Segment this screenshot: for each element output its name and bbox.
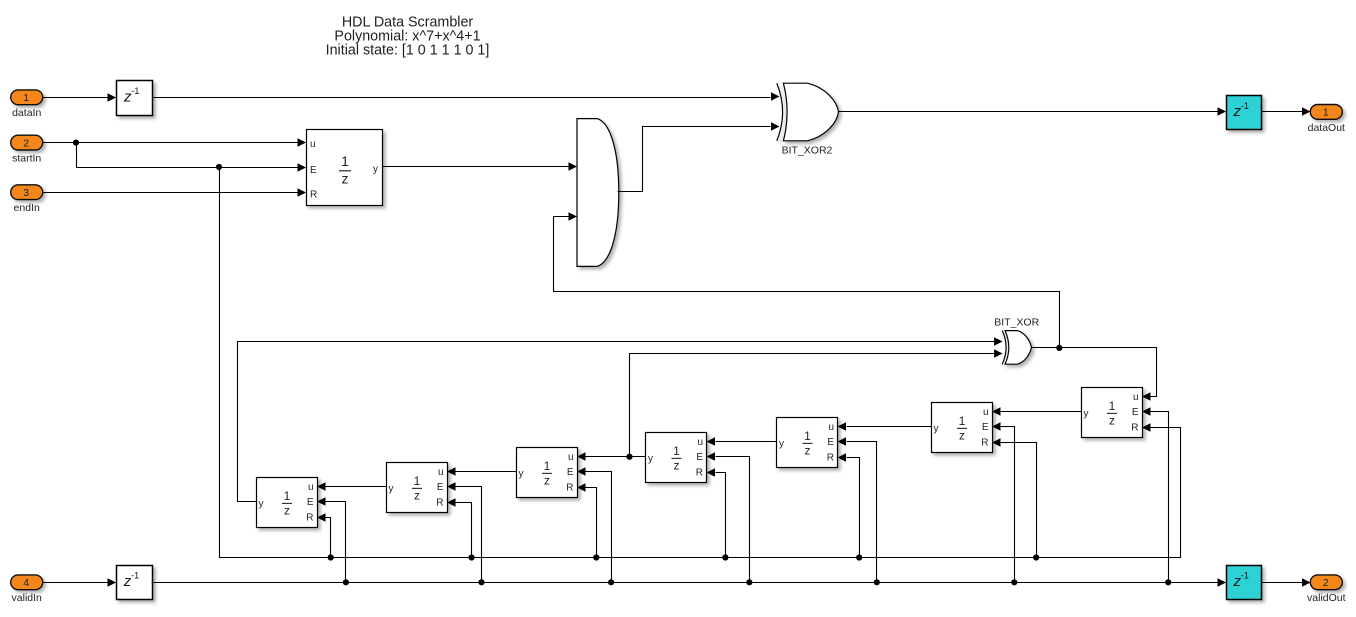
output port 2 validOut <box>1307 575 1346 604</box>
wire enable net to d3 E <box>838 437 877 582</box>
junction reset net <box>856 554 862 560</box>
wire d6 y to d7 u <box>317 482 387 491</box>
svg-text:E: E <box>310 165 317 176</box>
svg-text:R: R <box>1131 422 1138 433</box>
wire reset net to d3 R <box>838 453 860 557</box>
svg-text:y: y <box>779 438 784 449</box>
svg-text:E: E <box>1132 407 1139 418</box>
svg-text:R: R <box>306 512 313 523</box>
svg-text:endIn: endIn <box>14 202 40 214</box>
junction enable net <box>1011 579 1017 585</box>
wire startIn branch to U1 E <box>77 143 307 172</box>
svg-text:E: E <box>982 422 989 433</box>
svg-text:u: u <box>1133 392 1139 403</box>
svg-text:-1: -1 <box>131 571 139 581</box>
wire d3 y to d4 u <box>707 437 777 446</box>
delay block d1 (1/z flipped, u E R y) <box>1082 388 1143 438</box>
delay block d7 (1/z flipped, u E R y) <box>257 478 318 528</box>
svg-text:1: 1 <box>673 444 680 458</box>
enabled resettable delay block U1 (1/z, u E R y) <box>307 130 383 206</box>
svg-text:2: 2 <box>1323 577 1329 589</box>
delay block Delay3 (z^-1, validIn path) <box>117 566 153 600</box>
svg-text:y: y <box>1084 408 1089 419</box>
svg-text:1: 1 <box>341 153 349 169</box>
wire Delay2 to dataOut <box>1262 107 1311 116</box>
svg-text:E: E <box>437 482 444 493</box>
wire Delay1 to BIT_XOR2 input 1 <box>153 92 780 101</box>
wire feedback to AND input 2 <box>554 212 1060 347</box>
svg-text:u: u <box>983 407 989 418</box>
svg-text:u: u <box>568 452 574 463</box>
wire d7 y to BIT_XOR input 1 <box>238 337 1003 501</box>
wire Delay4 to validOut <box>1262 578 1311 587</box>
svg-text:z: z <box>342 171 349 187</box>
wire reset net to d2 R <box>992 438 1037 557</box>
input port 3 endIn <box>11 185 43 214</box>
wire enable net to d6 E <box>447 482 482 582</box>
junction scrambler feedback <box>1056 345 1062 351</box>
wire enable net to d4 E <box>707 452 750 582</box>
wire U1 y to AND input 1 <box>383 162 578 171</box>
wire enable net to d2 E <box>992 422 1015 582</box>
svg-text:R: R <box>310 190 317 201</box>
wire d2 y to d3 u <box>838 422 932 431</box>
svg-text:BIT_XOR: BIT_XOR <box>994 316 1039 328</box>
svg-text:z: z <box>544 473 550 487</box>
label BIT_XOR2 <box>782 144 833 156</box>
wire endIn to U1 R <box>43 188 307 197</box>
svg-text:z: z <box>805 443 811 457</box>
svg-text:1: 1 <box>959 414 966 428</box>
wire x^4 tap to BIT_XOR input 2 <box>630 349 1003 456</box>
svg-text:z: z <box>959 428 965 442</box>
svg-text:1: 1 <box>544 459 551 473</box>
wire BIT_XOR2 output to Delay2 <box>839 107 1227 116</box>
delay block d2 (1/z flipped, u E R y) <box>932 403 993 453</box>
svg-text:y: y <box>648 453 653 464</box>
wire reset net to d7 R <box>317 513 331 557</box>
svg-text:y: y <box>934 423 939 434</box>
delay block d4 (1/z flipped, u E R y) <box>646 433 707 483</box>
svg-text:E: E <box>567 467 574 478</box>
wire enable net to d1 E <box>1142 407 1169 582</box>
wire BIT_XOR output to d1 u <box>1032 348 1157 401</box>
wire enable net: Delay3 to Delay4 <box>152 578 1227 587</box>
wire d1 y to d2 u <box>992 407 1082 416</box>
svg-text:-1: -1 <box>1241 571 1249 581</box>
svg-text:1: 1 <box>23 92 29 104</box>
delay block d5 (1/z flipped, u E R y) <box>517 448 578 498</box>
svg-text:E: E <box>696 452 703 463</box>
svg-text:u: u <box>438 467 444 478</box>
svg-text:1: 1 <box>1323 107 1329 119</box>
label BIT_XOR <box>994 316 1039 328</box>
wire enable net to d7 E <box>317 497 346 582</box>
svg-text:R: R <box>981 437 988 448</box>
wire validIn to Delay3 <box>43 578 117 587</box>
junction enable net <box>608 579 614 585</box>
svg-text:y: y <box>373 164 378 175</box>
svg-text:1: 1 <box>804 429 811 443</box>
junction reset net <box>469 554 475 560</box>
svg-text:R: R <box>827 452 834 463</box>
junction enable net <box>874 579 880 585</box>
svg-text:1: 1 <box>1109 399 1116 413</box>
XOR gate BIT_XOR2 <box>777 83 839 141</box>
junction enable net <box>746 579 752 585</box>
junction enable net <box>343 579 349 585</box>
svg-text:E: E <box>307 497 314 508</box>
input port 4 validIn <box>11 575 43 604</box>
wire reset net to d6 R <box>447 498 472 557</box>
svg-text:y: y <box>389 483 394 494</box>
input port 1 dataIn <box>11 90 43 119</box>
svg-text:z: z <box>284 503 290 517</box>
junction tap x^4 <box>626 454 632 460</box>
svg-text:1: 1 <box>284 489 291 503</box>
svg-text:Initial state: [1 0 1 1 1 0 1]: Initial state: [1 0 1 1 1 0 1] <box>326 42 490 58</box>
svg-text:y: y <box>259 498 264 509</box>
junction startIn branch <box>73 140 79 146</box>
input port 2 startIn <box>11 135 43 164</box>
junction reset net tap <box>216 164 222 170</box>
wire reset net to d5 R <box>577 483 597 557</box>
wire d4 y to d5 u <box>577 452 646 461</box>
svg-text:BIT_XOR2: BIT_XOR2 <box>782 144 833 156</box>
svg-text:R: R <box>566 482 573 493</box>
wire AND output to BIT_XOR2 input 2 <box>618 122 780 191</box>
svg-text:3: 3 <box>23 187 29 199</box>
svg-text:z: z <box>414 488 420 502</box>
junction reset net <box>722 554 728 560</box>
svg-text:startIn: startIn <box>12 153 41 165</box>
junction enable net <box>478 579 484 585</box>
svg-text:z: z <box>674 458 680 472</box>
svg-text:u: u <box>828 422 834 433</box>
junction enable net <box>1165 579 1171 585</box>
wire d5 y to d6 u <box>447 467 517 476</box>
delay block d3 (1/z flipped, u E R y) <box>777 418 838 468</box>
delay block d6 (1/z flipped, u E R y) <box>387 463 448 513</box>
svg-text:u: u <box>308 482 314 493</box>
wire reset net to d4 R <box>707 468 726 557</box>
svg-text:dataOut: dataOut <box>1308 122 1345 134</box>
junction reset net <box>1033 554 1039 560</box>
wire reset net: down, along bottom, up to d1 R <box>220 168 1181 558</box>
svg-text:z: z <box>1109 413 1115 427</box>
annotation: model title <box>326 14 490 58</box>
svg-text:R: R <box>436 497 443 508</box>
wire startIn to U1 u <box>43 138 307 147</box>
svg-text:R: R <box>696 467 703 478</box>
svg-text:u: u <box>697 437 703 448</box>
junction reset net <box>593 554 599 560</box>
svg-text:-1: -1 <box>1241 101 1249 111</box>
svg-text:validOut: validOut <box>1307 592 1346 604</box>
output port 1 dataOut <box>1308 105 1345 134</box>
svg-text:1: 1 <box>414 474 421 488</box>
svg-text:dataIn: dataIn <box>12 107 41 119</box>
svg-text:2: 2 <box>23 137 29 149</box>
svg-text:4: 4 <box>23 577 29 589</box>
logical operator AND (tall D-shape) <box>577 119 619 267</box>
svg-text:E: E <box>827 437 834 448</box>
delay block Delay1 (z^-1, dataIn path) <box>117 81 153 116</box>
junction reset net <box>328 554 334 560</box>
svg-text:y: y <box>519 468 524 479</box>
wire enable net to d5 E <box>577 467 612 582</box>
svg-text:validIn: validIn <box>12 592 43 604</box>
svg-text:-1: -1 <box>131 86 139 96</box>
XOR gate BIT_XOR <box>1002 331 1031 365</box>
delay block Delay4 (z^-1 cyan, validOut path) <box>1227 566 1262 600</box>
svg-text:u: u <box>310 139 316 150</box>
delay block Delay2 (z^-1 cyan, dataOut path) <box>1227 96 1262 130</box>
wire dataIn to Delay1 <box>43 93 117 102</box>
